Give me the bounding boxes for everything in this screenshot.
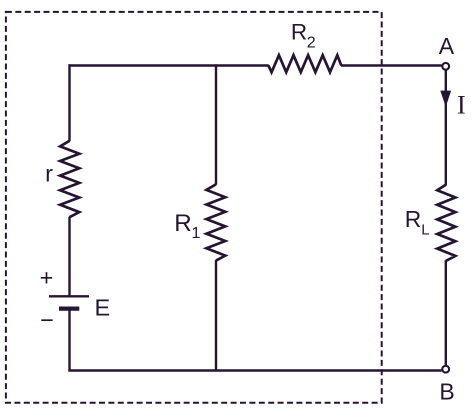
svg-text:I: I: [457, 90, 466, 119]
svg-text:B: B: [439, 378, 454, 404]
svg-text:+: +: [40, 264, 54, 290]
svg-text:r: r: [45, 161, 53, 187]
svg-text:−: −: [40, 307, 54, 333]
svg-text:R: R: [291, 20, 307, 45]
svg-text:1: 1: [192, 225, 201, 242]
svg-text:E: E: [95, 295, 111, 321]
svg-text:A: A: [439, 33, 455, 59]
svg-text:R: R: [174, 210, 191, 237]
svg-text:L: L: [421, 222, 429, 239]
svg-text:2: 2: [307, 34, 316, 51]
svg-text:R: R: [405, 206, 421, 232]
